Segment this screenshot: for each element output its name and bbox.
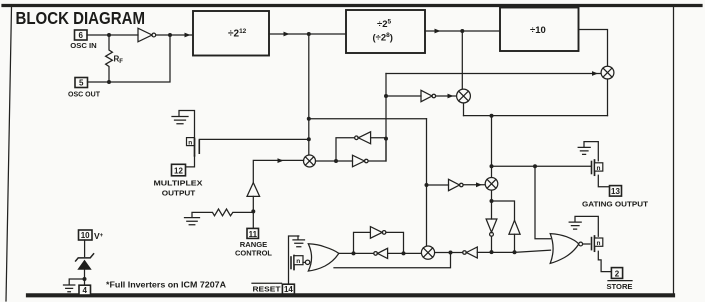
wire output bus horizontal [464, 115, 608, 117]
pin box 13 [610, 186, 622, 197]
zener diode D1 [76, 254, 94, 270]
node 492-166 junction [490, 164, 494, 168]
wire inverter out to block1 [156, 34, 192, 36]
node inverter-out junction [168, 33, 172, 37]
node 535-166 junction [533, 164, 537, 168]
svg-text:BLOCK DIAGRAM: BLOCK DIAGRAM [16, 8, 146, 28]
pin box 6 [75, 30, 88, 40]
inverter U6 pointing left [355, 132, 371, 144]
wire TG-B output down [463, 103, 465, 116]
wire TG-B control vertical [461, 31, 463, 89]
node 353-253 junction [352, 251, 356, 255]
wire bus to TG-D vertical [491, 116, 493, 178]
svg-text:OSC OUT: OSC OUT [68, 90, 100, 99]
wire node-X to TG-A input [386, 73, 601, 75]
wire Q4 gate to tap [199, 138, 308, 140]
wire latch1 top branch [336, 138, 355, 161]
wire gating control horizontal [492, 165, 592, 167]
wire to inverter U3 [427, 184, 449, 186]
node divider tap junction [307, 32, 311, 36]
wire TG-D output down [491, 190, 493, 219]
wire block2 out to block3 [425, 30, 500, 32]
buffer U8 range pointing up [247, 183, 260, 197]
label RANGE CONTROL [235, 240, 272, 258]
inverter U9 pointing right [370, 227, 386, 239]
wire TG-C output [316, 160, 353, 162]
transmission gate TG-D [485, 178, 498, 191]
svg-text:V+: V+ [94, 231, 104, 241]
wire OR2 upper input [535, 166, 551, 238]
svg-text:*Full Inverters on ICM 7207A: *Full Inverters on ICM 7207A [106, 281, 226, 290]
wire U11 input line to OR2 [477, 250, 550, 252]
wire block3 out to TG-A [579, 30, 608, 67]
svg-text:÷10: ÷10 [530, 25, 546, 36]
transmission gate TG-B [457, 89, 471, 103]
transistor Q2 store [569, 216, 611, 271]
transmission gate TG-C [304, 155, 316, 167]
wire U6 input to node X [371, 137, 386, 139]
wire latch2 loop [354, 232, 371, 253]
node 426-185 junction [425, 183, 429, 187]
block divide by 10 [500, 8, 579, 52]
svg-text:4: 4 [82, 286, 87, 295]
wire U8 out to TG-C [253, 160, 303, 182]
pin box 5 [75, 78, 88, 88]
node block2-out junction [460, 29, 464, 33]
arrowhead after block2 [435, 29, 441, 34]
node bus junction [490, 114, 494, 118]
node osc-in junction [107, 33, 111, 37]
svg-text:n: n [188, 139, 192, 146]
transistor Q3 reset [289, 236, 306, 284]
transistor Q1 gating [578, 142, 609, 187]
arrowhead into TG-C [278, 158, 284, 163]
pin box 10 [79, 230, 93, 240]
node zener junction [83, 277, 87, 281]
node tap-118 junction [307, 117, 311, 121]
wire OR2 out to Q2 gate [583, 243, 590, 245]
wire TG-A output down [607, 79, 609, 116]
svg-text:2: 2 [615, 269, 620, 278]
svg-text:n: n [296, 258, 300, 265]
node range junction [251, 209, 255, 213]
node X-96 junction [384, 94, 388, 98]
inverter U10 pointing left [374, 248, 388, 258]
arrowhead into divider block1 [185, 33, 191, 38]
wire 426 vertical [426, 119, 428, 246]
ground for zener [64, 285, 75, 292]
svg-text:OSC IN: OSC IN [70, 41, 97, 50]
wire node to ground [69, 279, 84, 285]
label STORE with overline [607, 281, 633, 291]
wire pin10 to zener [84, 240, 86, 257]
node tap-139 junction [307, 137, 311, 141]
pin box 14 [282, 284, 294, 294]
wire pin6 to node [87, 34, 138, 36]
wire U9 out and down [386, 232, 404, 253]
arrowhead into TG-B [448, 94, 454, 99]
wire feedback to OR1 [334, 253, 451, 268]
wire U7 out to node X [368, 139, 386, 161]
svg-text:RESET: RESET [253, 285, 281, 294]
node RF bottom junction [107, 80, 111, 84]
wire node X vertical [385, 74, 387, 162]
arrowhead after block1 [284, 32, 290, 37]
wire block1 out to block2 [269, 33, 346, 35]
pin box 11 [247, 228, 259, 238]
inverter U4 pointing down [486, 219, 497, 236]
svg-text:n: n [597, 240, 601, 247]
svg-text:10: 10 [81, 231, 90, 240]
svg-text:12: 12 [174, 167, 183, 176]
node X-138 junction [384, 137, 388, 141]
node 492-201 junction [490, 199, 494, 203]
pin box 4 [79, 285, 91, 295]
wire U8 input down [252, 196, 254, 228]
arrowhead into TG-D [476, 182, 482, 187]
wire OR1 output to latch [339, 252, 374, 254]
wire osc-out feedback [88, 35, 171, 82]
inverter U11 pointing left [463, 247, 478, 258]
svg-text:RF: RF [114, 55, 124, 66]
svg-text:CONTROL: CONTROL [235, 249, 272, 258]
wire U3 out to TG-D [463, 184, 485, 186]
wire U10 to TG-E [388, 252, 422, 254]
svg-text:(÷28): (÷28) [373, 32, 393, 44]
block divide by 2^12 [193, 11, 269, 56]
op-amp oscillator inverter U1 [138, 28, 156, 42]
resistor RF [106, 35, 113, 82]
inverter U3 [449, 179, 464, 190]
node 403-253 junction [402, 251, 406, 255]
svg-text:13: 13 [611, 187, 620, 196]
resistor R2 [192, 209, 253, 217]
transmission gate TG-E [421, 246, 434, 259]
svg-text:5: 5 [79, 79, 84, 88]
wire TG-E output [435, 252, 463, 254]
svg-text:14: 14 [284, 285, 293, 294]
block divide by 2^5 [346, 10, 425, 53]
arrowhead into TG-A [592, 71, 598, 76]
ground for R2 [185, 218, 200, 225]
inverter U2 [421, 90, 436, 101]
label RESET with overline [252, 283, 282, 293]
pin box 12 [172, 164, 186, 176]
wire to buffer U5 apex [492, 201, 515, 220]
svg-text:OUTPUT: OUTPUT [162, 189, 196, 198]
svg-text:n: n [597, 165, 601, 172]
transistor Q4 multiplex [172, 111, 199, 167]
node 514-252 junction [513, 250, 517, 254]
wire U5 input down [514, 234, 516, 252]
wire zener to node [84, 270, 86, 285]
nor gate OR2 [550, 234, 582, 264]
svg-text:6: 6 [78, 31, 83, 40]
svg-text:GATING OUTPUT: GATING OUTPUT [582, 200, 648, 209]
pin box 2 [611, 268, 622, 279]
node 450-252 junction [449, 251, 453, 255]
wire node X to inverter U2 [386, 95, 421, 97]
node 491-252 junction [490, 250, 494, 254]
svg-text:STORE: STORE [607, 282, 633, 291]
nor gate OR1 [305, 244, 338, 271]
svg-text:MULTIPLEX: MULTIPLEX [154, 179, 203, 188]
svg-text:11: 11 [249, 230, 258, 239]
wire U4 out down [491, 236, 493, 252]
wire U2 out to TG-B [436, 95, 457, 97]
transmission gate TG-A [601, 66, 614, 79]
wire divider tap vertical [308, 34, 310, 155]
label MULTIPLEX OUTPUT [154, 179, 203, 198]
buffer U5 pointing up [509, 220, 520, 234]
inverter U7 pointing right [353, 155, 369, 167]
node 336-161 junction [334, 159, 338, 163]
wire tap-118 horizontal [309, 118, 427, 120]
